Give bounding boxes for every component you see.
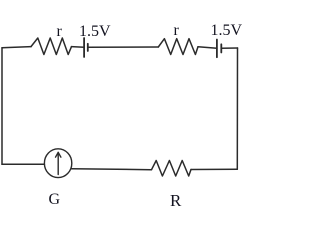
svg-text:1.5V: 1.5V — [211, 22, 243, 39]
resistor r2 — [158, 39, 198, 55]
svg-text:R: R — [170, 191, 182, 210]
svg-text:G: G — [49, 191, 61, 208]
wire resistor r1 to battery B1 — [72, 46, 85, 49]
wire resistor R to galvanometer — [71, 169, 151, 170]
wire left rail — [1, 48, 3, 165]
resistor r1 — [31, 38, 72, 55]
galvanometer arrow — [56, 152, 61, 174]
wire top-left horizontal — [2, 47, 31, 48]
wire resistor r2 to battery B2 — [198, 47, 217, 48]
battery B2 long plate — [216, 40, 218, 58]
wire galvanometer to bottom-left corner — [2, 163, 44, 165]
battery B1 short plate — [87, 44, 89, 51]
wire right rail — [236, 48, 238, 169]
svg-text:r: r — [174, 22, 180, 39]
wire bottom-right to resistor R — [191, 168, 237, 170]
galvanometer G circle — [44, 149, 71, 178]
wire battery B2 to top-right corner — [221, 47, 237, 49]
svg-text:r: r — [57, 23, 63, 40]
battery B2 short plate — [220, 44, 222, 52]
battery B1 long plate — [83, 38, 85, 57]
wire battery B1 to resistor r2 — [88, 46, 159, 48]
svg-text:1.5V: 1.5V — [79, 23, 111, 40]
resistor R — [152, 161, 192, 177]
